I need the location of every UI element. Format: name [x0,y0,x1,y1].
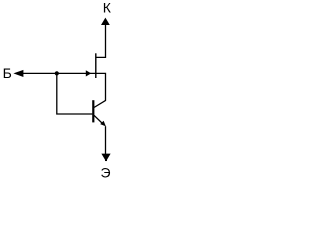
gate arrowhead into channel [86,70,91,76]
terminal arrow down (emitter lead) [101,154,110,162]
svg-text:К: К [103,0,112,15]
transistor VT2 base bar (BJT) [92,100,94,122]
collector diagonal [94,100,106,107]
emitter arrowhead [100,121,106,127]
svg-text:Э: Э [101,164,111,179]
wire emitter lead down [105,126,107,155]
terminal arrow up (collector lead) [101,18,110,25]
emitter diagonal [94,115,104,124]
junction node dot [55,71,59,75]
transistor VT1 channel bar (JFET) [95,53,97,78]
svg-text:Б: Б [3,65,12,81]
wire collector lead down to FET drain [96,24,106,57]
wire base horizontal through gate to FET source corner [20,73,106,100]
terminal arrow left (base lead) [13,70,23,77]
wire from node down to BJT base [57,73,93,114]
